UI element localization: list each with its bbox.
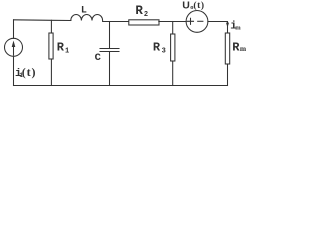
- svg-text:1: 1: [65, 47, 69, 55]
- svg-text:U: U: [182, 0, 190, 11]
- svg-text:2: 2: [144, 11, 148, 19]
- svg-text:3: 3: [162, 47, 166, 55]
- svg-text:L: L: [81, 6, 87, 17]
- svg-text:(t): (t): [22, 65, 37, 79]
- svg-text:C: C: [95, 52, 102, 64]
- svg-text:m: m: [235, 25, 241, 32]
- svg-text:R: R: [153, 40, 161, 54]
- svg-text:R: R: [135, 4, 143, 18]
- svg-text:R: R: [57, 41, 65, 55]
- svg-text:m: m: [240, 44, 246, 53]
- svg-text:(t): (t): [193, 0, 204, 11]
